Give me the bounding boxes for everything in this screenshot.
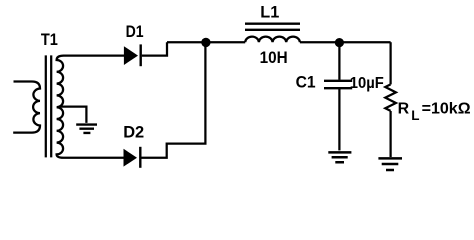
transformer T1 core bbox=[46, 55, 51, 157]
wire top bus bbox=[167, 41, 245, 43]
ground (center tap) bbox=[76, 125, 97, 133]
diode D1 cathode bar bbox=[139, 44, 141, 66]
wire C1 branch lower bbox=[338, 89, 340, 151]
svg-text:D2: D2 bbox=[123, 123, 144, 142]
wire bus after L1 bbox=[300, 41, 391, 43]
svg-text:L1: L1 bbox=[260, 2, 279, 21]
wire RL to ground bbox=[389, 111, 391, 157]
svg-text:D1: D1 bbox=[126, 22, 144, 41]
ground (C1) bbox=[328, 152, 351, 162]
svg-text:10µF: 10µF bbox=[350, 75, 384, 92]
wire center tap bbox=[60, 107, 86, 123]
svg-text:T1: T1 bbox=[41, 30, 58, 49]
wire C1 branch upper bbox=[338, 42, 340, 80]
svg-text:10H: 10H bbox=[260, 48, 288, 67]
node junction dot right bbox=[335, 38, 344, 47]
transformer T1 secondary winding bbox=[57, 56, 124, 158]
ground (RL) bbox=[378, 158, 402, 170]
resistor RL zigzag bbox=[385, 84, 396, 111]
node junction dot left bbox=[201, 38, 210, 47]
svg-text:C1: C1 bbox=[296, 73, 316, 92]
wire D1 cathode to bus bbox=[142, 42, 167, 55]
diode D2 cathode bar bbox=[139, 147, 141, 168]
svg-text:L: L bbox=[411, 108, 419, 123]
transformer T1 primary winding bbox=[13, 82, 40, 133]
wire D2 cathode to junction bbox=[142, 42, 206, 158]
capacitor C1 plates bbox=[324, 81, 352, 88]
inductor L1 core bars bbox=[245, 24, 300, 30]
svg-text:R: R bbox=[398, 100, 410, 117]
inductor L1 coil bbox=[245, 37, 300, 43]
diode D1 triangle bbox=[124, 46, 138, 65]
diode D2 triangle bbox=[124, 149, 138, 167]
svg-text:=10kΩ: =10kΩ bbox=[422, 101, 471, 118]
wire right branch down bbox=[389, 42, 391, 84]
